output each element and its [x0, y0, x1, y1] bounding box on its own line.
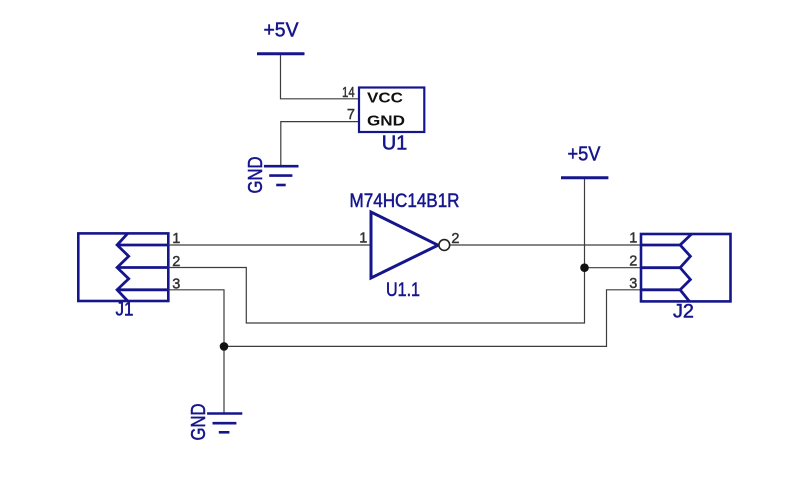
power +5V (right)	[561, 144, 608, 178]
svg-text:M74HC14B1R: M74HC14B1R	[350, 191, 460, 212]
svg-text:GND: GND	[367, 113, 405, 130]
wire J1 pin3 to ground node	[168, 290, 224, 347]
J1 pin bars	[117, 244, 168, 247]
svg-text:+5V: +5V	[264, 20, 300, 42]
connector J1	[78, 233, 168, 301]
svg-text:U1.1: U1.1	[386, 280, 420, 301]
svg-text:U1: U1	[382, 133, 408, 155]
wire ground node to J2 pin3	[224, 290, 641, 347]
svg-text:1: 1	[629, 231, 637, 247]
junction dot (+5V net at J2 pin2)	[580, 263, 589, 272]
wire ground node down to GND symbol	[223, 346, 225, 413]
ground GND (bottom)	[188, 404, 242, 441]
svg-text:J2: J2	[673, 302, 694, 323]
svg-text:14: 14	[342, 85, 355, 101]
wire J1 pin2 to +5V node	[168, 268, 584, 324]
svg-text:3: 3	[629, 276, 637, 292]
svg-text:7: 7	[347, 107, 355, 123]
J1 zigzag	[117, 233, 129, 301]
J2 zigzag	[680, 234, 692, 301]
svg-text:VCC: VCC	[367, 90, 403, 107]
wire +5V to U1 pin 14	[281, 55, 360, 99]
wire +5V right down to node	[584, 179, 586, 268]
svg-text:1: 1	[359, 231, 367, 247]
wire U1 pin 7 to ground	[281, 122, 359, 165]
ground GND (top, for U1 pin 7)	[245, 157, 299, 194]
inversion bubble	[439, 240, 450, 251]
svg-text:GND: GND	[188, 404, 210, 441]
inverter U1.1 triangle	[371, 212, 438, 278]
svg-text:J1: J1	[116, 300, 134, 321]
svg-text:+5V: +5V	[568, 144, 602, 166]
wire inverter output to J2 pin1	[450, 244, 641, 246]
svg-text:2: 2	[629, 254, 637, 270]
connector J2	[641, 234, 731, 301]
power block U1 (VCC/GND box)	[359, 88, 424, 133]
svg-text:GND: GND	[245, 157, 267, 194]
wire J1 pin1 to inverter input	[168, 244, 371, 246]
J2 pin bars	[641, 244, 680, 247]
power +5V (top left)	[257, 20, 305, 54]
wire node to J2 pin2	[585, 267, 642, 269]
junction dot (GND net)	[220, 342, 229, 351]
